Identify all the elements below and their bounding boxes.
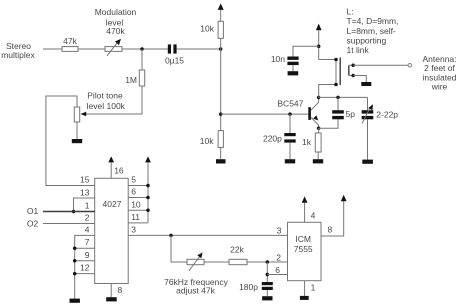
svg-text:1k: 1k [302, 137, 312, 147]
capacitor 180p [239, 282, 273, 296]
pin 8 stub wire and supply arrow [321, 195, 347, 236]
wire link to ground [353, 76, 366, 83]
capacitor 0u15 [165, 44, 184, 65]
wire 22k to 7555 pin 2 [247, 261, 288, 263]
wire pin2 tap down to pin 6 stub [266, 262, 268, 282]
svg-text:0µ15: 0µ15 [165, 56, 184, 66]
ground under 180p [262, 296, 272, 300]
pin 1 ground wire 7555 [305, 281, 316, 296]
junction node base rail [219, 112, 223, 116]
ground under link [361, 82, 371, 86]
node: Stereo multiplex input label [1, 41, 35, 60]
svg-text:BC547: BC547 [277, 98, 303, 108]
svg-text:11: 11 [131, 212, 140, 222]
svg-text:5p: 5p [346, 109, 356, 119]
IC U1 4027 body [95, 178, 129, 283]
junction node 5p tap [336, 96, 340, 100]
antenna terminal [408, 64, 412, 68]
junction node emitter [317, 126, 321, 130]
wire input to R 47k [43, 48, 62, 50]
wire pilot pot bottom [76, 122, 78, 139]
supply arrow tank [316, 24, 322, 60]
svg-text:470k: 470k [106, 26, 125, 36]
svg-text:180p: 180p [239, 282, 258, 292]
junction node 220p tap [288, 112, 292, 116]
junction node pin12 [73, 272, 77, 276]
svg-text:multiplex: multiplex [1, 50, 35, 60]
pin 8 ground wire [111, 284, 122, 298]
note: inductor L specification text [347, 6, 399, 55]
supply arrow 4027 right pins [145, 156, 151, 223]
resistor 10k top [200, 21, 223, 38]
ground under 1k [313, 159, 323, 163]
svg-text:1: 1 [311, 283, 316, 293]
svg-text:adjust 47k: adjust 47k [176, 285, 215, 295]
svg-text:3: 3 [131, 224, 136, 234]
svg-text:supporting: supporting [347, 35, 387, 45]
svg-text:O1: O1 [27, 206, 39, 216]
svg-text:4: 4 [85, 225, 90, 235]
pin 9 stub [75, 250, 95, 261]
ground under 7555 pin 1 [300, 296, 309, 300]
svg-text:Modulation: Modulation [95, 7, 137, 17]
potentiometer Pilot tone level 100k [74, 91, 125, 123]
wire vertical 10k to base rail [220, 38, 222, 130]
svg-text:47k: 47k [63, 36, 77, 46]
junction node B [219, 47, 223, 51]
node O2 input wire [27, 213, 95, 229]
junction node pin7 [73, 246, 77, 250]
wire tap down to 76k pot [171, 235, 187, 262]
junction node pin6 tap [266, 273, 270, 277]
junction node pin13/O1 [72, 210, 76, 214]
ground under 10n [288, 71, 299, 75]
svg-text:level 100k: level 100k [87, 101, 126, 111]
resistor 47k [62, 36, 78, 52]
pin 4 wire to ground chain [75, 225, 95, 299]
svg-text:4027: 4027 [103, 199, 122, 209]
potentiometer Modulation level 470k [95, 7, 137, 56]
wire 1M to pilot wiper [85, 86, 142, 114]
ground under bottom 10k [216, 159, 226, 163]
supply arrow 4027 pin 16 [108, 156, 124, 178]
IC U2 ICM 7555 body [288, 222, 322, 280]
resistor 1M [125, 49, 145, 86]
note: antenna text [422, 54, 456, 91]
pin 5 stub [128, 174, 148, 185]
transistor Q1 BC547 [277, 97, 318, 128]
svg-text:12: 12 [80, 263, 90, 273]
junction node pin9 [73, 259, 77, 263]
svg-text:10: 10 [131, 199, 141, 209]
supply arrow above top 10k [218, 3, 224, 21]
pin 7 stub [75, 237, 95, 248]
pin 3 wire 4027 to 7555 [128, 224, 287, 235]
resistor 1k [302, 128, 321, 159]
pin 6 stub [128, 187, 148, 198]
trimmer capacitor 2-22p [362, 97, 399, 159]
svg-text:2: 2 [276, 252, 281, 262]
wire pilot pot top to 4027 pin 15 [46, 96, 95, 186]
junction node pin5 [146, 184, 150, 188]
svg-text:wire: wire [431, 81, 448, 91]
svg-text:4: 4 [311, 210, 316, 220]
potentiometer 76kHz adjust 47k [164, 252, 229, 295]
svg-text:T=4, D=9mm,: T=4, D=9mm, [347, 16, 399, 26]
svg-text:2-22p: 2-22p [376, 110, 398, 120]
svg-text:8: 8 [118, 285, 123, 295]
svg-text:7: 7 [85, 237, 90, 247]
pin 10 stub [128, 199, 148, 210]
svg-text:10k: 10k [200, 136, 214, 146]
svg-text:220p: 220p [263, 133, 282, 143]
svg-text:13: 13 [80, 187, 90, 197]
inductor L tank coil [319, 58, 341, 98]
wire collector rail [319, 96, 368, 98]
pin 13 stub wire [74, 187, 95, 211]
junction node A [140, 47, 144, 51]
wire pot to 22k [204, 261, 229, 263]
junction node pin6 [146, 196, 150, 200]
svg-text:Pilot tone: Pilot tone [87, 91, 123, 101]
ground under pin4 chain [70, 299, 80, 303]
pin 11 stub [128, 212, 148, 223]
svg-text:6: 6 [275, 265, 280, 275]
junction node pin3 tap [169, 234, 173, 238]
pin 12 stub [75, 263, 95, 274]
ground under 220p [285, 159, 295, 163]
svg-text:6: 6 [131, 187, 136, 197]
junction node 10n tap [317, 45, 321, 49]
ground under pilot pot [72, 139, 82, 143]
resistor 10k bottom [200, 131, 224, 160]
pin 6 stub wire 7555 [267, 274, 287, 276]
ground under 2-22p [362, 160, 373, 164]
capacitor 5p [319, 97, 356, 128]
svg-text:16: 16 [114, 166, 124, 176]
junction node pin2 tap [266, 260, 270, 264]
node O1 input wire [27, 200, 95, 216]
ground under 4027 pin 8 [106, 297, 117, 301]
wire base rail [221, 113, 309, 115]
svg-text:3: 3 [277, 225, 282, 235]
svg-text:1: 1 [85, 200, 90, 210]
svg-text:7555: 7555 [294, 244, 313, 254]
svg-text:22k: 22k [230, 244, 244, 254]
svg-text:ICM: ICM [295, 234, 311, 244]
inductor 1t link winding [349, 64, 355, 78]
junction node collector [317, 96, 321, 100]
junction node pin10 [146, 209, 150, 213]
svg-text:15: 15 [80, 174, 90, 184]
svg-text:10k: 10k [200, 24, 214, 34]
wire pot to cap [122, 48, 168, 50]
svg-text:O2: O2 [27, 219, 39, 229]
svg-text:L=8mm, self-: L=8mm, self- [347, 26, 397, 36]
wire 47k to pot [78, 48, 105, 50]
capacitor 10n [271, 46, 319, 71]
svg-text:5: 5 [131, 174, 136, 184]
svg-text:9: 9 [85, 250, 90, 260]
svg-text:L:: L: [347, 6, 354, 16]
svg-text:2: 2 [85, 213, 90, 223]
svg-text:10n: 10n [271, 54, 285, 64]
svg-text:8: 8 [328, 225, 333, 235]
wire cap to 10k node [177, 48, 221, 50]
supply arrow 7555 pin 4 [302, 196, 316, 222]
wire link to antenna terminal [353, 64, 408, 66]
svg-text:1t link: 1t link [347, 45, 370, 55]
capacitor 220p [263, 114, 296, 159]
svg-text:1M: 1M [125, 75, 137, 85]
resistor 22k [229, 244, 247, 264]
